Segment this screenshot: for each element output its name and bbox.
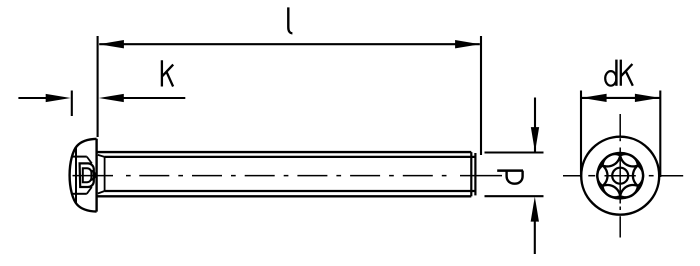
thread run-out diagonal bottom [98, 191, 105, 194]
recess bottom edge [72, 193, 87, 195]
label dk: k [621, 60, 633, 86]
recess perspective diagonal bottom [87, 187, 92, 194]
dimension d: upper arrowhead (down) [531, 127, 539, 152]
dimension k: apex tick extension [71, 91, 73, 117]
dimension k: outside leader left [18, 97, 51, 99]
label d (rotated 90 deg): bowl cup [507, 171, 523, 184]
dimension d: extension line top [485, 151, 544, 153]
dimension d: upper arrow leader [534, 98, 536, 134]
end view: torx recess outer circle [597, 153, 643, 199]
torx petal 4 [597, 166, 607, 186]
dimension k: outside leader right [117, 97, 185, 99]
label l [288, 7, 292, 33]
thread root line bottom [105, 190, 476, 192]
end view: torx centre circle [612, 168, 628, 184]
label dk: d bowl [605, 71, 616, 86]
thread run-out diagonal top [98, 155, 105, 157]
dimension l: extension line left (head face) [97, 36, 99, 137]
shaft crest line top [97, 151, 472, 153]
dimension dk: extension line left [580, 91, 582, 178]
recess top edge [72, 156, 87, 158]
thread run-out vertical [104, 157, 106, 191]
dimension dk: arrowhead left [582, 94, 607, 102]
shaft crest line bottom [97, 195, 472, 197]
end view: horizontal centreline [563, 175, 582, 177]
recess centre pip arc [91, 171, 96, 180]
torx petal 3 [603, 185, 621, 197]
end view: head outer circle [581, 137, 659, 215]
dimension l: extension line right (shaft end) [480, 36, 482, 155]
torx petal 6 [620, 154, 638, 166]
screw head: dome outline [70, 139, 97, 212]
thread root line top [105, 156, 476, 158]
shaft end chamfer line [470, 152, 472, 196]
shaft end face [474, 153, 476, 195]
shaft centreline (dash-dot) [73, 175, 503, 177]
dimension l: dimension line [99, 43, 480, 45]
label d (rotated 90 deg): stem bar [497, 169, 523, 172]
dimension k: arrowhead pointing right at apex tick [46, 94, 71, 102]
dimension l: arrowhead left [99, 40, 124, 48]
torx petal 2 [620, 185, 638, 197]
dimension d: lower arrow leader [534, 215, 536, 254]
torx recess side view: mouth edge vertical [75, 147, 77, 205]
dimension l: arrowhead right [455, 40, 480, 48]
recess socket outline (inner) [83, 168, 92, 182]
label k [162, 60, 173, 86]
recess socket outline (outer) [80, 163, 94, 187]
end view: vertical centreline [619, 114, 621, 136]
torx petal 5 [603, 154, 621, 166]
dimension k: arrowhead pointing left at face line [99, 94, 124, 102]
dimension d: lower arrowhead (up) [531, 197, 539, 222]
screw head: bearing face [95, 139, 97, 212]
dimension dk: dimension line [582, 97, 660, 99]
dimension dk: extension line right [659, 91, 661, 178]
recess perspective diagonal top [87, 157, 92, 164]
dimension dk: arrowhead right [635, 94, 660, 102]
label dk: d stem [615, 60, 617, 86]
dimension d: extension line bottom [485, 195, 544, 197]
torx petal 1 [633, 166, 643, 186]
